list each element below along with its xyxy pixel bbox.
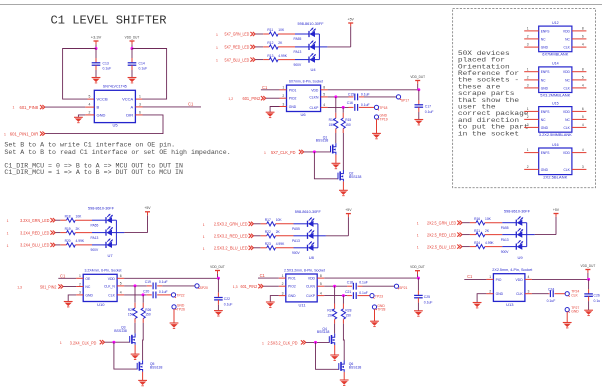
svg-text:BSS138: BSS138: [114, 329, 127, 333]
test point TP27: [565, 306, 579, 314]
svg-text:CLKN: CLKN: [306, 285, 316, 289]
svg-text:GND: GND: [541, 168, 549, 172]
svg-text:1: 1: [527, 148, 529, 152]
wire: [76, 277, 83, 279]
svg-text:6: 6: [582, 35, 584, 39]
wire: [60, 244, 66, 246]
svg-text:R14: R14: [329, 118, 335, 122]
ground: [340, 380, 349, 385]
svg-text:PA55: PA55: [501, 226, 509, 230]
svg-text:R12: R12: [267, 41, 273, 45]
svg-text:2X2.5mm, 4-Pin, Socket: 2X2.5mm, 4-Pin, Socket: [492, 268, 532, 272]
wire: [117, 285, 124, 287]
svg-text:U10: U10: [97, 302, 105, 307]
svg-text:VDD: VDD: [311, 88, 319, 92]
svg-text:1: 1: [203, 247, 205, 251]
svg-text:1: 1: [13, 106, 15, 110]
wire: [117, 294, 124, 296]
wire: [326, 235, 349, 237]
svg-text:BSS138: BSS138: [349, 175, 362, 179]
svg-text:VDD: VDD: [563, 151, 571, 155]
LED PA55: [501, 216, 523, 230]
svg-text:U15: U15: [552, 101, 559, 105]
power +3.3V: [91, 35, 102, 48]
wire: [261, 235, 267, 237]
wire: [280, 89, 287, 91]
svg-text:C1: C1: [262, 85, 268, 90]
svg-text:0.1uF: 0.1uF: [359, 291, 368, 295]
wire: [343, 372, 345, 380]
ground: [128, 78, 137, 83]
wire: [328, 96, 349, 98]
power +5V: [348, 17, 355, 26]
svg-text:VDD: VDD: [563, 29, 571, 33]
wire: [349, 106, 354, 108]
wire: [68, 295, 76, 301]
wire: [522, 234, 527, 236]
svg-text:CLK: CLK: [563, 86, 570, 90]
node junction: [417, 277, 420, 280]
svg-text:PA13: PA13: [91, 236, 99, 240]
svg-text:900V: 900V: [501, 250, 510, 254]
svg-text:VDD: VDD: [308, 277, 316, 281]
transistor Q1: [316, 135, 336, 154]
svg-text:BSS138: BSS138: [317, 330, 330, 334]
svg-text:1,3: 1,3: [233, 285, 238, 289]
svg-text:+5V: +5V: [553, 208, 560, 212]
svg-text:U7: U7: [108, 253, 114, 258]
svg-text:2K: 2K: [278, 41, 283, 45]
wire: [342, 296, 344, 304]
wire: [566, 312, 568, 323]
wire: [60, 219, 66, 221]
svg-text:2X2.5_RED_LED: 2X2.5_RED_LED: [427, 232, 456, 237]
svg-text:BSS138: BSS138: [349, 366, 362, 370]
wire: [295, 59, 309, 61]
ground: [64, 302, 73, 307]
svg-text:PIO2: PIO2: [289, 97, 297, 101]
svg-text:C25: C25: [424, 295, 430, 299]
svg-text:0.1uF: 0.1uF: [139, 67, 148, 71]
svg-text:R17: R17: [265, 218, 271, 222]
svg-text:DIR: DIR: [126, 112, 133, 117]
svg-text:A: A: [131, 105, 134, 110]
wire: [335, 155, 337, 164]
svg-text:1: 1: [282, 274, 284, 278]
svg-text:2K: 2K: [276, 230, 281, 234]
svg-text:0.1uF: 0.1uF: [224, 303, 233, 307]
svg-text:0.1uF: 0.1uF: [159, 280, 168, 284]
node junction: [342, 294, 345, 297]
wire: [254, 247, 261, 249]
svg-text:PIO1: PIO1: [288, 277, 296, 281]
svg-text:601_PIN8: 601_PIN8: [20, 105, 39, 110]
svg-text:1: 1: [7, 219, 9, 223]
wire: [535, 234, 556, 236]
wire: [555, 217, 557, 235]
wire: [276, 223, 294, 225]
wire: [124, 232, 147, 234]
svg-text:U14: U14: [552, 62, 559, 66]
svg-text:1: 1: [216, 46, 218, 50]
node junction: [314, 341, 317, 344]
svg-text:U16: U16: [552, 143, 559, 147]
resistor R26: [141, 303, 151, 323]
wire: [304, 151, 331, 153]
svg-text:B: B: [97, 105, 100, 110]
svg-text:4: 4: [582, 123, 584, 127]
test point TP19: [374, 114, 387, 122]
svg-text:3.2X2.5MMBLANK: 3.2X2.5MMBLANK: [539, 133, 573, 137]
capacitor C21: [345, 290, 368, 299]
wire: [318, 34, 320, 60]
resistor R19: [65, 227, 81, 235]
svg-text:NC: NC: [565, 118, 570, 122]
svg-text:3.2X4_BLU_LED: 3.2X4_BLU_LED: [20, 243, 49, 248]
wire: [75, 244, 92, 246]
test point TP24: [565, 290, 579, 298]
resistor R23: [265, 242, 285, 250]
svg-text:ENFS: ENFS: [541, 110, 551, 114]
svg-text:SP21: SP21: [399, 286, 407, 290]
svg-text:5: 5: [89, 95, 91, 99]
wire: [470, 246, 476, 248]
svg-text:PIO2: PIO2: [288, 285, 296, 289]
wire: [485, 222, 503, 224]
wire: [255, 59, 263, 61]
wire: [58, 277, 76, 279]
svg-text:6: 6: [139, 110, 141, 114]
port 3.2X4_BLU_LED: [7, 243, 56, 248]
svg-text:3: 3: [282, 102, 284, 106]
svg-text:4.99K: 4.99K: [485, 241, 494, 245]
svg-text:VDD: VDD: [108, 277, 116, 281]
svg-text:Set B to A to write C1 interfa: Set B to A to write C1 interface on OE p…: [4, 142, 175, 149]
svg-text:C1: C1: [260, 273, 266, 278]
test point TP28: [372, 304, 385, 312]
wire: [135, 98, 142, 100]
capacitor C17: [415, 90, 434, 120]
svg-text:6: 6: [120, 274, 122, 278]
wire: [147, 215, 149, 232]
svg-text:PA13: PA13: [501, 238, 509, 242]
wire: [88, 98, 95, 100]
wire: [458, 50, 529, 137]
wire: [263, 46, 269, 48]
wire: [315, 33, 320, 35]
wire: [313, 235, 318, 237]
wire: [321, 89, 328, 91]
svg-text:8: 8: [320, 274, 322, 278]
svg-text:NC: NC: [541, 37, 546, 41]
transistor Q4: [317, 327, 335, 345]
test point TP23: [370, 294, 383, 299]
svg-text:6X7mm, 8-Pin, Socket: 6X7mm, 8-Pin, Socket: [289, 80, 323, 84]
wire: [55, 244, 60, 246]
wire: [134, 345, 136, 354]
svg-text:TP22: TP22: [176, 294, 184, 298]
node junction: [217, 277, 220, 280]
node junction: [417, 88, 420, 91]
resistor R14: [329, 113, 338, 133]
svg-text:1: 1: [216, 33, 218, 37]
svg-text:CLKP: CLKP: [306, 294, 316, 298]
svg-text:R20: R20: [65, 239, 71, 243]
svg-text:10K: 10K: [76, 214, 83, 218]
wire: [335, 97, 337, 113]
wire: [374, 309, 376, 321]
wire: [116, 232, 124, 234]
svg-text:2: 2: [282, 282, 284, 286]
socket U15: [524, 101, 586, 137]
svg-text:TP19: TP19: [380, 117, 388, 121]
capacitor C24: [547, 288, 556, 303]
svg-text:2K: 2K: [485, 229, 490, 233]
port 2X2.5_GRN_LED: [417, 220, 462, 225]
wire: [134, 323, 136, 334]
wire: [0, 4, 602, 6]
svg-text:6: 6: [582, 107, 584, 111]
svg-text:ENFS: ENFS: [541, 70, 551, 74]
svg-text:5: 5: [120, 282, 122, 286]
svg-text:598-8610-30FF: 598-8610-30FF: [298, 22, 324, 26]
svg-text:1,2: 1,2: [228, 97, 233, 101]
svg-text:150: 150: [329, 123, 335, 127]
wire: [334, 286, 336, 303]
wire: [347, 217, 349, 236]
svg-text:OE: OE: [85, 277, 91, 281]
capacitor C16: [347, 101, 370, 111]
svg-text:0.1uF: 0.1uF: [424, 300, 433, 304]
capacitor C13: [92, 49, 111, 78]
ground: [414, 120, 423, 125]
svg-text:2: 2: [527, 115, 529, 119]
svg-text:5: 5: [320, 282, 322, 286]
svg-text:1: 1: [262, 341, 264, 345]
ground: [74, 117, 83, 122]
svg-text:ENFS: ENFS: [541, 151, 551, 155]
svg-text:5: 5: [582, 115, 584, 119]
svg-text:R22: R22: [265, 230, 271, 234]
svg-text:1: 1: [4, 132, 6, 136]
wire: [63, 49, 96, 100]
socket U11: [282, 268, 325, 307]
svg-text:150: 150: [128, 313, 134, 317]
svg-text:BSS138: BSS138: [316, 139, 329, 143]
svg-text:1: 1: [7, 244, 9, 248]
svg-text:3.2X4_RED_LED: 3.2X4_RED_LED: [20, 230, 49, 235]
svg-text:4.99K: 4.99K: [276, 242, 285, 246]
wire: [334, 345, 336, 355]
svg-text:1,3: 1,3: [17, 285, 22, 289]
svg-text:VCCA: VCCA: [122, 97, 133, 102]
wire: [470, 222, 476, 224]
wire: [334, 324, 336, 334]
svg-text:5X3.2MMBLANK: 5X3.2MMBLANK: [540, 94, 571, 98]
resistor R20: [65, 239, 85, 247]
wire: [255, 46, 263, 48]
svg-text:C14: C14: [139, 62, 145, 66]
svg-text:2: 2: [282, 94, 284, 98]
svg-text:GND: GND: [288, 294, 296, 298]
svg-text:PA55: PA55: [294, 37, 302, 41]
svg-text:8: 8: [323, 86, 325, 90]
svg-text:PA13: PA13: [292, 239, 300, 243]
ground: [330, 355, 339, 360]
wire: [321, 96, 328, 98]
svg-text:PA55: PA55: [292, 227, 300, 231]
svg-text:601_PIN2: 601_PIN2: [241, 284, 258, 289]
wire: [134, 286, 136, 303]
node junction: [313, 150, 316, 153]
svg-text:1: 1: [527, 27, 529, 31]
port 601_PIN2: [228, 96, 265, 101]
svg-text:3: 3: [139, 103, 141, 107]
svg-text:R28: R28: [345, 309, 351, 313]
transistor Q5: [137, 360, 162, 371]
svg-text:R19: R19: [65, 227, 71, 231]
svg-text:1: 1: [489, 275, 491, 279]
svg-text:1: 1: [282, 86, 284, 90]
wire: [276, 247, 294, 249]
wire: [112, 219, 117, 221]
wire: [142, 295, 144, 303]
transistor Q2: [338, 170, 361, 181]
wire: [502, 234, 516, 236]
wire: [321, 106, 328, 108]
svg-text:R11: R11: [267, 28, 273, 32]
transistor Q6: [339, 361, 362, 372]
svg-text:3: 3: [528, 290, 530, 294]
wire: [485, 246, 503, 248]
wire: [319, 46, 327, 48]
svg-text:2.5X3.2_CLK_PD: 2.5X3.2_CLK_PD: [268, 341, 298, 346]
svg-text:2.5X3.2_RED_LED: 2.5X3.2_RED_LED: [214, 234, 248, 239]
svg-text:2K: 2K: [76, 227, 81, 231]
svg-text:1: 1: [7, 232, 9, 236]
wire: [349, 96, 354, 98]
wire: [317, 285, 324, 287]
power VDD_DUT: [410, 265, 425, 278]
svg-text:CLK: CLK: [571, 294, 578, 298]
resistor R22: [265, 230, 281, 238]
svg-text:C1: C1: [188, 101, 194, 106]
wire: [263, 33, 269, 35]
wire: [462, 234, 470, 236]
wire: [278, 46, 295, 48]
svg-text:VDD_DUT: VDD_DUT: [210, 265, 225, 269]
socket U16: [524, 143, 586, 180]
wire: [342, 181, 344, 190]
svg-text:1: 1: [139, 95, 141, 99]
ground: [170, 323, 179, 328]
svg-text:C24: C24: [548, 288, 554, 292]
wire: [76, 286, 83, 288]
svg-text:VDD: VDD: [516, 278, 524, 282]
LED PA13: [91, 226, 113, 240]
svg-text:GND: GND: [97, 112, 106, 117]
ground: [214, 311, 223, 316]
ground: [414, 311, 423, 316]
svg-text:2: 2: [527, 35, 529, 39]
svg-text:5X7_RED_LED: 5X7_RED_LED: [225, 45, 250, 50]
svg-text:150: 150: [145, 313, 151, 317]
wire: [261, 223, 267, 225]
wire: [85, 114, 94, 116]
wire: [135, 114, 142, 116]
svg-text:R13: R13: [267, 54, 273, 58]
wire: [60, 232, 66, 234]
wire: [317, 224, 319, 248]
svg-text:U13: U13: [506, 302, 514, 307]
svg-text:NC: NC: [541, 118, 546, 122]
wire: [486, 278, 493, 280]
svg-text:U5: U5: [113, 122, 119, 127]
wire: [254, 223, 261, 225]
wire: [92, 244, 106, 246]
svg-text:VDD_DUT: VDD_DUT: [410, 265, 425, 269]
svg-text:2: 2: [489, 290, 491, 294]
wire: [279, 295, 286, 297]
svg-text:SP20: SP20: [200, 286, 208, 290]
capacitor C15: [348, 92, 370, 100]
svg-text:R16: R16: [474, 217, 480, 221]
svg-text:R15: R15: [345, 118, 351, 122]
LED PA55: [91, 214, 113, 228]
svg-text:1: 1: [60, 341, 62, 345]
wire: [525, 293, 532, 295]
wire: [315, 59, 320, 61]
op-amp U5: [89, 84, 142, 128]
wire: [270, 296, 279, 302]
svg-text:C1: C1: [467, 274, 473, 279]
svg-text:900V: 900V: [91, 248, 100, 252]
ground: [131, 354, 140, 359]
wire: [328, 106, 349, 108]
svg-text:U12: U12: [552, 21, 559, 25]
wire: [115, 220, 117, 245]
socket U14: [524, 62, 586, 98]
svg-text:GND: GND: [496, 292, 504, 296]
power +5V: [345, 208, 352, 217]
ground: [266, 302, 275, 307]
wire: [279, 277, 286, 279]
capacitor C25: [414, 278, 432, 311]
svg-text:3.2X4mm, 6-Pin, Socket: 3.2X4mm, 6-Pin, Socket: [85, 269, 122, 273]
svg-text:TP28: TP28: [377, 308, 385, 312]
port 3.2X4_RED_LED: [7, 230, 56, 235]
resistor R25: [128, 303, 137, 323]
svg-text:3: 3: [527, 84, 529, 88]
test point SP20: [195, 284, 208, 290]
svg-text:+3.3V: +3.3V: [91, 35, 102, 39]
port 5X7_GRN_LED: [216, 32, 255, 37]
svg-text:C16: C16: [347, 101, 353, 105]
LED PA55: [292, 218, 314, 232]
wire: [294, 223, 308, 225]
svg-text:4: 4: [323, 103, 325, 107]
svg-text:601_PIN2: 601_PIN2: [243, 96, 261, 101]
wire: [63, 286, 76, 288]
power +5V: [553, 208, 560, 217]
svg-text:GND: GND: [541, 86, 549, 90]
svg-text:1: 1: [203, 235, 205, 239]
svg-text:4: 4: [582, 148, 584, 152]
svg-text:C13: C13: [103, 62, 109, 66]
wire: [350, 27, 352, 47]
wire: [364, 96, 396, 98]
svg-text:BSS138: BSS138: [150, 366, 163, 370]
